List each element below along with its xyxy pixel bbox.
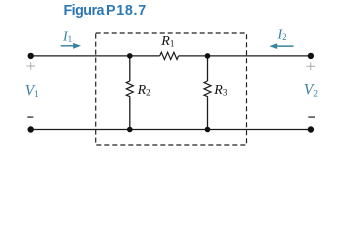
wire right shunt upper [207,56,209,81]
current I1 arrow [61,43,81,49]
junction node top-left [127,53,133,59]
junction node bottom-left [127,127,133,133]
resistor R1 [160,52,179,59]
junction node top-right [205,53,211,59]
svg-text:V1: V1 [25,82,39,100]
wire top-right segment [179,55,311,57]
junction node bottom-right [205,127,211,133]
node terminal top-left [28,53,34,59]
svg-text:R3: R3 [213,83,228,98]
svg-text:V2: V2 [304,82,318,100]
node terminal bottom-right [308,126,314,132]
wire top-left segment [31,55,160,57]
port 1 minus sign [27,116,33,118]
resistor R2 [126,81,133,98]
svg-text:Figura: Figura [64,3,106,19]
wire left shunt lower [129,98,131,130]
wire left shunt upper [129,56,131,81]
wire bottom [31,129,311,131]
port 1 plus sign [26,62,35,70]
svg-text:R1: R1 [160,34,174,49]
port 2 plus sign [306,62,315,70]
svg-text:I1: I1 [62,29,72,44]
svg-text:I2: I2 [277,27,287,42]
svg-text:R2: R2 [137,83,151,98]
node terminal top-right [308,53,314,59]
dashed two-port boundary box [96,33,247,145]
current I2 arrow [269,43,293,49]
wire right shunt lower [207,98,209,130]
resistor R3 [204,81,211,98]
port 2 minus sign [308,116,315,118]
node terminal bottom-left [28,126,34,132]
svg-text:P18.7: P18.7 [106,3,147,19]
